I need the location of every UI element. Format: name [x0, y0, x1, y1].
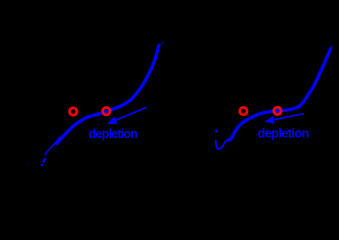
right plot: red circle A — [240, 107, 247, 114]
right plot: annotation arrow head — [264, 116, 274, 124]
svg-text:depletion: depletion — [88, 127, 137, 141]
right plot: hook at curve start — [216, 140, 229, 149]
left plot: thin lead-in of curve — [53, 138, 60, 146]
right plot: dotted tail dot — [215, 130, 218, 133]
right plot: annotation arrow line — [270, 114, 304, 121]
left plot: tail blob dash — [44, 159, 46, 162]
left plot: annotation arrow head — [107, 117, 118, 125]
left plot: dotted tail dot 1 — [41, 164, 43, 166]
left plot: annotation arrow line — [114, 107, 147, 121]
right plot: red circle B — [274, 107, 281, 114]
svg-text:depletion: depletion — [258, 127, 309, 141]
right plot: faint curve tip — [331, 45, 334, 48]
left plot: red circle 2 — [103, 108, 110, 115]
left plot: faint curve tip — [161, 42, 164, 45]
left plot: faint tail dot 0 — [28, 164, 30, 166]
left plot: main blue curve — [57, 45, 159, 143]
right plot: main blue curve — [229, 49, 331, 140]
right plot: vertical dash of tail — [215, 141, 217, 146]
left plot: dashed tail — [45, 146, 52, 155]
left plot: red circle 1 — [70, 108, 77, 115]
